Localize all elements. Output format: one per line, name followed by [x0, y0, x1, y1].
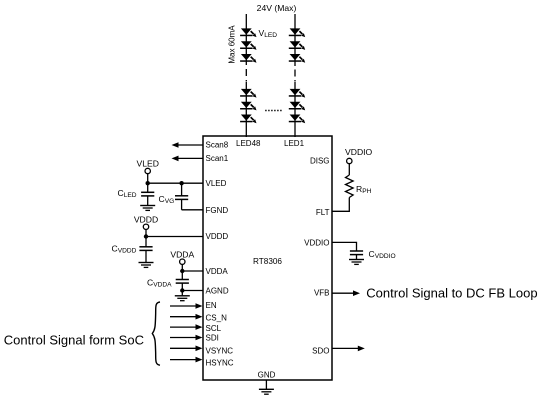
svg-text:DISG: DISG — [310, 156, 330, 165]
svg-text:Scan8: Scan8 — [206, 140, 229, 149]
svg-text:VDDIO: VDDIO — [304, 238, 329, 247]
svg-text:VLED: VLED — [136, 159, 158, 169]
capacitor CVDDD — [139, 237, 152, 263]
LED string2 D3 — [289, 54, 305, 63]
ground below CVDDA — [175, 296, 190, 301]
svg-text:VDDD: VDDD — [134, 215, 158, 225]
wire VLED rail to pin — [148, 182, 203, 184]
arrow out of VFB — [332, 290, 360, 296]
arrow out of Scan8 — [172, 142, 204, 148]
svg-text:LED1: LED1 — [284, 139, 305, 148]
LED string1 D4 — [240, 89, 256, 98]
wire LED string 1 dash-dot break — [245, 64, 247, 83]
wire LED string 1 bottom — [245, 82, 247, 137]
svg-text:CVG: CVG — [159, 194, 175, 205]
junction AGND/CVDDA — [180, 288, 184, 292]
svg-text:CVDDD: CVDDD — [112, 244, 137, 255]
svg-text:GND: GND — [258, 371, 276, 380]
svg-text:FLT: FLT — [316, 208, 330, 217]
svg-text:Control Signal form SoC: Control Signal form SoC — [4, 333, 144, 348]
LED string2 D4 — [289, 89, 305, 98]
svg-text:RPH: RPH — [356, 184, 372, 195]
svg-text:24V (Max): 24V (Max) — [257, 3, 297, 13]
LED string1 D3 — [240, 54, 256, 63]
LED string2 D5 — [289, 102, 305, 111]
svg-text:VFB: VFB — [314, 288, 330, 297]
arrow into HSYNC — [170, 357, 203, 363]
svg-text:VDDA: VDDA — [206, 267, 229, 276]
arrow into EN — [170, 303, 203, 309]
wire LED string 2 dash-dot break — [294, 65, 296, 83]
wire VLED terminal to rail — [147, 174, 149, 184]
arrow out of Scan1 — [172, 156, 204, 162]
wire CVG to FGND pin — [182, 209, 203, 211]
ellipsis between strings — [265, 110, 282, 112]
capacitor CVDDIO — [350, 251, 363, 260]
wire VDDA terminal to rail — [181, 264, 183, 271]
junction VLED/CLED — [146, 181, 150, 185]
svg-text:CVDDA: CVDDA — [147, 278, 172, 289]
ground below GND pin — [259, 389, 274, 394]
LED string1 D6 — [240, 115, 256, 124]
wire VDDD terminal to rail — [145, 230, 147, 237]
svg-text:VDDA: VDDA — [170, 249, 194, 259]
brace for SoC control signals — [152, 302, 160, 365]
LED string2 D1 — [289, 28, 305, 37]
wire CVDDA to AGND pin — [182, 290, 203, 292]
svg-text:SCL: SCL — [206, 324, 222, 333]
svg-text:Scan1: Scan1 — [206, 154, 229, 163]
LED string1 D2 — [240, 41, 256, 50]
svg-text:LED48: LED48 — [236, 139, 261, 148]
svg-text:FGND: FGND — [206, 206, 229, 215]
arrow into CS_N — [170, 314, 203, 320]
wire LED string 1 top — [245, 14, 247, 64]
svg-text:Control Signal to DC FB Loop: Control Signal to DC FB Loop — [366, 286, 537, 301]
svg-text:Max 60mA: Max 60mA — [228, 25, 237, 64]
wire VDDD rail to pin — [146, 236, 203, 238]
wire VDDIO pin to CVDDIO — [332, 242, 357, 250]
svg-text:VDDD: VDDD — [206, 232, 229, 241]
svg-text:VLED: VLED — [206, 179, 227, 188]
svg-text:SDI: SDI — [206, 333, 219, 342]
svg-text:SDO: SDO — [312, 346, 329, 355]
LED string2 D2 — [289, 41, 305, 50]
capacitor CLED — [141, 183, 154, 205]
LED string1 D1 — [240, 28, 256, 37]
wire LED string 2 bottom — [294, 82, 296, 137]
svg-text:VDDIO: VDDIO — [345, 147, 373, 157]
LED string1 D5 — [240, 102, 256, 111]
junction VDDD/CVDDD — [144, 234, 148, 238]
ground below CLED — [140, 206, 155, 211]
capacitor CVDDA — [176, 271, 189, 295]
arrow into SCL — [170, 324, 203, 330]
svg-text:CS_N: CS_N — [206, 313, 228, 322]
wire VDDIO terminal to RPH — [348, 164, 350, 175]
svg-text:VSYNC: VSYNC — [206, 346, 234, 355]
junction VDDA/CVDDA — [180, 269, 184, 273]
svg-text:AGND: AGND — [206, 286, 229, 295]
svg-text:CLED: CLED — [118, 188, 137, 199]
capacitor CVG — [175, 183, 188, 210]
wire RPH to FLT pin — [332, 198, 349, 212]
svg-text:EN: EN — [206, 301, 217, 310]
LED string2 D6 — [289, 115, 305, 124]
junction VLED/CVG — [179, 181, 183, 185]
svg-text:CVDDIO: CVDDIO — [369, 249, 396, 260]
IC U1 RT8306 body — [203, 136, 332, 380]
svg-text:RT8306: RT8306 — [253, 257, 282, 266]
wire LED string 2 top — [294, 14, 296, 65]
wire VDDA rail to pin — [182, 270, 203, 272]
arrow out of SDO — [332, 346, 365, 352]
resistor RPH — [346, 175, 354, 198]
arrow into VSYNC — [170, 346, 203, 352]
svg-text:HSYNC: HSYNC — [206, 358, 234, 367]
ground below CVDDD — [139, 263, 154, 268]
arrow into SDI — [170, 335, 203, 341]
wire GND pin to ground — [265, 380, 267, 389]
ground below CVDDIO — [349, 260, 364, 265]
svg-text:VLED: VLED — [259, 28, 278, 39]
